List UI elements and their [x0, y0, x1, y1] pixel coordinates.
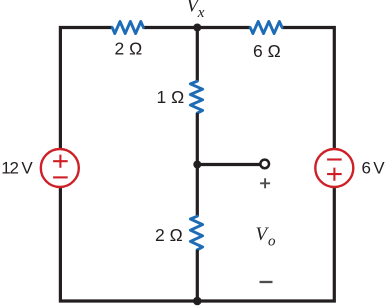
wire middle branch to bottom rail	[196, 250, 199, 301]
V1 plus sign	[53, 155, 68, 168]
V2 plus sign	[327, 168, 342, 181]
svg-text:2 Ω: 2 Ω	[115, 39, 143, 59]
svg-text:2 Ω: 2 Ω	[155, 225, 183, 245]
V1 minus sign	[53, 176, 68, 178]
wire top middle segment	[143, 26, 250, 29]
node Vx dot	[193, 24, 201, 32]
svg-text:12 V: 12 V	[1, 159, 33, 178]
resistor R3 1-ohm vertical zigzag	[190, 81, 202, 113]
svg-text:x: x	[197, 5, 205, 21]
voltage source V2 6V circle	[315, 149, 353, 187]
wire middle branch below junction	[196, 165, 199, 217]
wire left rail lower and bottom rail	[60, 187, 334, 301]
wire right rail upper and top-right corner	[282, 28, 334, 150]
wire output tap horizontal	[197, 163, 260, 166]
resistor R4 2-ohm vertical zigzag	[190, 216, 202, 250]
resistor R2 6-ohm top-right zigzag	[250, 22, 282, 34]
svg-text:1 Ω: 1 Ω	[157, 87, 185, 107]
output minus sign	[260, 281, 273, 283]
voltage source V1 12V circle	[41, 149, 79, 187]
wire middle branch between R3 and junction	[196, 113, 199, 164]
V2 minus sign	[327, 158, 342, 160]
node bottom junction dot	[193, 297, 202, 306]
node middle junction dot	[193, 161, 201, 169]
output plus sign	[260, 178, 270, 188]
terminal open circle	[260, 160, 269, 169]
svg-text:6 V: 6 V	[362, 159, 386, 178]
wire middle branch upper	[196, 28, 199, 82]
wire left rail with top-left and bottom-left corners	[60, 28, 112, 150]
svg-text:o: o	[268, 234, 276, 250]
resistor R1 2-ohm top-left zigzag	[112, 22, 143, 34]
svg-text:6 Ω: 6 Ω	[253, 41, 281, 61]
